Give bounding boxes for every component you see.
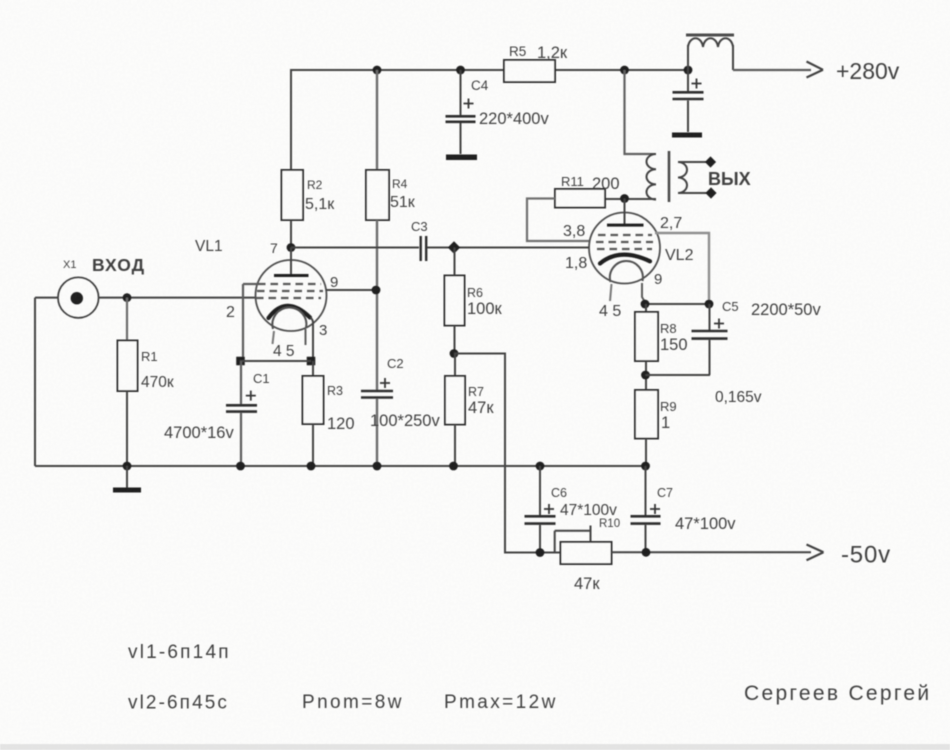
node junction C6 bottom bbox=[536, 548, 545, 557]
node junction transformer tap bbox=[620, 66, 629, 75]
resistor R5 bbox=[504, 60, 555, 82]
capacitor C5 bbox=[709, 304, 711, 330]
wire C3 to VL2 grid bbox=[427, 247, 589, 249]
wire secondary bottom terminal bbox=[678, 192, 708, 194]
node junction cathode VL2 bbox=[641, 300, 650, 309]
wire R8 bottom bbox=[645, 361, 647, 390]
wire rail drop to R2 bbox=[290, 69, 292, 170]
resistor R4 bbox=[366, 170, 389, 220]
wire R2 to node 7 bbox=[290, 220, 292, 248]
wire R9 bottom bbox=[645, 439, 647, 467]
wire R4 down to C2 bbox=[376, 220, 378, 390]
ground under filter cap bbox=[672, 133, 702, 138]
node junction pin9/R4 bbox=[372, 286, 381, 295]
bus junction C2 bbox=[373, 462, 382, 471]
tube VL1 envelope bbox=[256, 260, 327, 331]
VL1 anode plate bbox=[274, 274, 309, 277]
arrow -50v bbox=[807, 545, 824, 561]
resistor R2 bbox=[282, 170, 304, 220]
node junction C7 bottom bbox=[642, 548, 651, 557]
tube VL2 envelope bbox=[589, 213, 660, 284]
wire jack left to ground bus bbox=[35, 298, 59, 466]
VL1 heater arc bbox=[272, 307, 306, 329]
node junction R4 top bbox=[373, 66, 382, 75]
node junction filter cap tap bbox=[684, 66, 693, 75]
capacitor C3 bbox=[421, 236, 427, 261]
resistor R1 bbox=[118, 341, 138, 392]
VL1 grid row 1 bbox=[258, 283, 321, 285]
bus junction R3 bbox=[307, 462, 316, 471]
wire node 7 to C3 bbox=[291, 247, 419, 249]
wire secondary top terminal bbox=[678, 161, 708, 163]
transformer primary winding bbox=[647, 154, 656, 200]
transformer core bbox=[668, 151, 671, 202]
wire R8/R9 node to C5 bottom bbox=[646, 374, 711, 376]
wire R6 bottom bbox=[454, 326, 456, 354]
node junction R6 top bbox=[448, 241, 460, 253]
bus junction C1 bbox=[236, 462, 245, 471]
wire R3 bottom bbox=[312, 424, 314, 466]
node junction input/R1 bbox=[123, 293, 132, 302]
choke L1 bbox=[686, 34, 734, 37]
VL2 anode lead bbox=[624, 199, 626, 225]
ground symbol main bbox=[126, 466, 128, 488]
wire primary bottom to anode node bbox=[605, 198, 656, 200]
wire choke to +280v arrow bbox=[733, 69, 811, 71]
capacitor C7 bbox=[645, 466, 647, 515]
VL1 anode lead bbox=[290, 248, 292, 275]
node junction anode VL2 bbox=[620, 194, 629, 203]
resistor R6 bbox=[454, 248, 456, 276]
node 7 junction bbox=[287, 243, 296, 252]
bus junction R7 bbox=[449, 462, 458, 471]
resistor R7 bbox=[454, 354, 456, 377]
filter capacitor at choke bbox=[687, 70, 689, 91]
wire R1 top lead bbox=[126, 298, 128, 341]
VL2 grid row 3 bbox=[597, 248, 652, 250]
VL2 anode plate bbox=[607, 224, 644, 227]
wire rail down to transformer primary bbox=[625, 70, 651, 154]
wire jack to grid VL1 bbox=[99, 297, 257, 299]
wire top rail mid segment bbox=[555, 69, 689, 71]
wire R6/R7 node to -50v bus bbox=[454, 354, 561, 553]
ground under C4 bbox=[446, 155, 477, 161]
VL1 grid row 2 bbox=[257, 290, 323, 292]
VL1 heater pin 4 lead bbox=[273, 331, 275, 344]
VL1 grid row 3 bbox=[256, 297, 321, 299]
terminal dot top bbox=[705, 156, 716, 167]
node junction C6 top bbox=[536, 462, 545, 471]
VL2 grid row 1 bbox=[598, 234, 652, 236]
resistor R9 bbox=[635, 390, 658, 439]
wire R1 bottom lead bbox=[126, 391, 128, 466]
wire VL1 pin 9 to R4 line bbox=[326, 289, 377, 291]
capacitor C6 bbox=[539, 466, 541, 515]
node junction C4 tap bbox=[456, 66, 465, 75]
VL1 heater pin 5 lead bbox=[305, 329, 307, 345]
capacitor C1 bbox=[240, 361, 242, 404]
node junction R8/R9 bbox=[641, 371, 650, 380]
wire VL2 pin 2,7 to C5 node bbox=[655, 233, 709, 302]
VL2 cathode arc bbox=[600, 255, 650, 264]
VL2 cathode pin 9 lead bbox=[642, 283, 646, 303]
VL1 cathode pin 3 lead bbox=[310, 318, 313, 362]
VL2 heater arc bbox=[610, 261, 643, 282]
resistor R11 bbox=[555, 189, 605, 208]
wire main ground bus bbox=[35, 465, 646, 467]
wire cathode node to C5 bbox=[645, 303, 709, 305]
resistor R8 bbox=[645, 304, 647, 312]
VL2 grid row 2 bbox=[596, 241, 653, 243]
bus junction R9/C7 bbox=[641, 462, 650, 471]
capacitor C2 bbox=[361, 391, 393, 398]
VL2 heater pin 4 lead bbox=[610, 284, 612, 301]
cathode bypass node wire bbox=[236, 357, 245, 366]
VL1 grid link left bbox=[243, 284, 258, 361]
trimmer R10 bbox=[561, 542, 612, 564]
wire rail drop to R4 bbox=[376, 70, 378, 170]
wire R10 to -50v arrow bbox=[612, 551, 812, 553]
transformer secondary winding bbox=[678, 162, 687, 193]
wire top rail left segment bbox=[291, 69, 504, 71]
arrow +280v bbox=[807, 62, 824, 78]
terminal dot bottom bbox=[705, 187, 716, 198]
bus junction R1 bbox=[123, 462, 132, 471]
node junction C5 top bbox=[705, 300, 714, 309]
VL1 cathode arc bbox=[269, 306, 311, 318]
node junction R6/R7 bbox=[450, 349, 459, 358]
resistor R3 bbox=[312, 361, 314, 376]
wire R7 bottom bbox=[454, 425, 456, 467]
capacitor C4 bbox=[460, 70, 462, 115]
wire R11 to VL2 grid 3,8 bbox=[527, 199, 589, 242]
connector X1 input jack bbox=[58, 277, 99, 318]
